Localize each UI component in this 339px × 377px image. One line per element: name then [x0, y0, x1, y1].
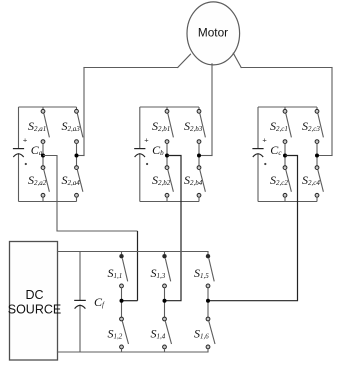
node cell b right midpoint: [197, 154, 201, 158]
node leg midpoint x164.5: [163, 299, 167, 303]
wire cell a link jog: [43, 156, 138, 232]
node cell c left midpoint: [283, 154, 287, 158]
wire motor phase c bus: [241, 67, 332, 69]
svg-text:+: +: [262, 136, 267, 145]
svg-text:S2,c2: S2,c2: [270, 173, 288, 187]
wire cell a link vertical: [137, 231, 139, 301]
svg-text:S1,2: S1,2: [108, 327, 123, 341]
svg-text:S2,b1: S2,b1: [152, 119, 170, 133]
svg-text:Motor: Motor: [198, 26, 228, 40]
svg-text:S1,3: S1,3: [151, 266, 166, 280]
svg-text:S1,1: S1,1: [108, 266, 123, 280]
wire cell b left edge upper: [139, 107, 141, 149]
node cell c right midpoint: [315, 154, 319, 158]
switch S2,a4: [62, 156, 83, 202]
wire cell c left edge lower: [257, 153, 259, 201]
wire cell b link vertical: [165, 156, 182, 301]
svg-text:S2,b4: S2,b4: [184, 173, 203, 187]
wire phase a jog to cell 1: [77, 155, 85, 157]
capacitor Cc: [252, 136, 282, 165]
wire cell c left edge upper: [257, 107, 259, 149]
wire cell a left edge upper: [18, 107, 20, 149]
svg-text:S2,b3: S2,b3: [184, 119, 203, 133]
switch S1,5: [194, 252, 214, 301]
svg-text:S1,5: S1,5: [194, 266, 209, 280]
wire motor phase a bus: [84, 67, 178, 69]
svg-text:Cc: Cc: [270, 143, 282, 157]
switch S2,a2: [28, 156, 49, 202]
switch S2,c4: [302, 156, 323, 202]
switch S1,4: [151, 301, 172, 352]
svg-text:Ca: Ca: [31, 143, 43, 157]
node cell a left midpoint: [41, 154, 45, 158]
wire cell b top rail: [140, 106, 199, 108]
wire cell a left edge lower: [18, 153, 20, 201]
wire motor left lead diagonal: [178, 54, 191, 67]
svg-text:S2,a1: S2,a1: [28, 119, 46, 133]
wire cell b bottom rail: [140, 201, 199, 203]
node leg midpoint x121.5: [120, 299, 124, 303]
switch S2,c3: [302, 107, 323, 156]
wire phase c vertical to cell 3: [331, 68, 333, 156]
svg-text:SOURCE: SOURCE: [8, 303, 61, 317]
switch S2,a3: [62, 107, 83, 156]
wire cell c bottom rail: [258, 201, 317, 203]
motor M1: [187, 2, 240, 65]
switch S2,b2: [152, 156, 173, 202]
svg-text:S2,a4: S2,a4: [62, 173, 81, 187]
svg-text:+: +: [144, 136, 149, 145]
wire cell c link vertical: [208, 156, 298, 301]
switch S2,b4: [184, 156, 205, 202]
switch S2,a1: [28, 107, 49, 156]
wire cell c top rail: [258, 106, 317, 108]
wire cell a bottom rail: [19, 201, 77, 203]
svg-text:DC: DC: [25, 288, 43, 302]
wire DC positive bus: [58, 251, 209, 253]
switch S2,b1: [152, 107, 173, 156]
wire phase a vertical to cell 1: [83, 68, 85, 156]
capacitor Cb: [134, 136, 164, 165]
DC source: [8, 242, 61, 361]
wire DC negative bus: [58, 351, 209, 353]
svg-text:S2,a3: S2,a3: [62, 119, 81, 133]
switch S1,1: [108, 252, 128, 301]
svg-text:+: +: [23, 136, 28, 145]
wire cell b left edge lower: [139, 153, 141, 201]
svg-text:S1,4: S1,4: [151, 327, 166, 341]
svg-text:S2,c4: S2,c4: [302, 173, 320, 187]
switch S2,c2: [270, 156, 291, 202]
wire motor phase b vertical: [211, 64, 213, 156]
svg-text:S2,b2: S2,b2: [152, 173, 171, 187]
wire cell a top rail: [19, 106, 77, 108]
svg-text:S2,c3: S2,c3: [302, 119, 320, 133]
node leg midpoint x208: [206, 299, 210, 303]
wire leg 1 midpoint jog: [122, 300, 138, 302]
svg-text:Cf: Cf: [94, 295, 105, 309]
switch S1,3: [151, 252, 171, 301]
wire phase b jog to cell 2: [199, 155, 212, 157]
wire phase c jog to cell 3: [317, 155, 332, 157]
node cell b left midpoint: [165, 154, 169, 158]
capacitor Ca: [13, 136, 43, 165]
svg-text:S2,a2: S2,a2: [28, 173, 47, 187]
svg-text:S1,6: S1,6: [194, 327, 209, 341]
capacitor Cf: [74, 252, 105, 353]
switch S1,6: [194, 301, 215, 352]
svg-text:Cb: Cb: [152, 143, 164, 157]
svg-text:S2,c1: S2,c1: [270, 119, 288, 133]
switch S2,b3: [184, 107, 205, 156]
switch S1,2: [108, 301, 129, 352]
node cell a right midpoint: [75, 154, 79, 158]
switch S2,c1: [270, 107, 291, 156]
wire motor right lead diagonal: [233, 53, 241, 67]
